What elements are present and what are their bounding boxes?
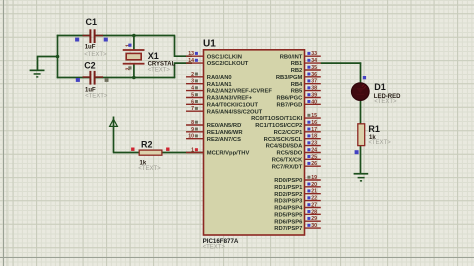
pin 30 RD7/PSP7 [274,223,321,232]
svg-text:35: 35 [311,65,317,71]
wire power arrow down to R2 row [113,117,115,153]
svg-text:RB7/PGD: RB7/PGD [277,102,303,108]
pin 29 RD6/PSP6 [274,216,321,225]
svg-text:RC0/T1OSO/T1CKI: RC0/T1OSO/T1CKI [251,116,303,122]
svg-text:25: 25 [311,154,317,160]
svg-text:18: 18 [311,134,317,140]
svg-text:17: 17 [311,127,317,133]
pin 5 RA3/AN3/VREF+ [186,93,253,102]
svg-text:RD4/PSP4: RD4/PSP4 [274,206,303,212]
X1 pin 2 marker [128,66,131,69]
svg-text:26: 26 [311,161,317,167]
svg-text:RD6/PSP6: RD6/PSP6 [274,219,303,225]
svg-text:7: 7 [191,106,194,112]
C1 pin marker left [75,38,79,42]
svg-text:RD2/PSP2: RD2/PSP2 [274,192,302,198]
svg-text:RA4/T0CKI/C1OUT: RA4/T0CKI/C1OUT [207,102,259,108]
svg-text:RB5: RB5 [291,89,303,95]
op-amp n/a : microcontroller U1 body [204,50,305,235]
pin 17 RC2/CCP1 [274,127,321,136]
svg-text:RC2/CCP1: RC2/CCP1 [274,130,303,136]
pin 3 RA1/AN1 [186,79,232,88]
X1 pin 1 marker [128,44,131,47]
pin 10 RE2/AN7/CS [186,134,241,143]
svg-text:<TEXT>: <TEXT> [148,67,171,73]
resistor R1 [358,124,365,146]
pin 39 RB6/PGC [277,93,321,102]
pin 27 RD4/PSP4 [274,203,321,212]
pin 15 RC0/T1OSO/T1CKI [251,113,321,122]
wire R2 row left segment [113,152,140,154]
svg-text:RD1/PSP1: RD1/PSP1 [274,185,303,191]
wire R2 to MCLR pin 1 [162,152,204,154]
svg-text:RA2/AN2/VREF-/CVREF: RA2/AN2/VREF-/CVREF [207,89,273,95]
svg-text:R1: R1 [368,124,380,134]
wire RB1 pin 34 to LED column [321,62,362,64]
pin 37 RB4 [291,79,321,88]
svg-text:4: 4 [191,86,194,92]
svg-text:29: 29 [311,216,317,222]
svg-text:27: 27 [311,203,317,209]
svg-text:19: 19 [311,175,317,181]
pin 2 RA0/AN0 [186,72,232,81]
pin 13 OSC1/CLKIN [186,51,242,60]
svg-text:X1: X1 [148,51,159,61]
svg-text:RA1/AN1: RA1/AN1 [207,82,233,88]
pin 1 MCLR/Vpp/THV [186,148,249,157]
svg-text:1: 1 [191,148,194,154]
R2 pin marker right [166,148,169,151]
pin 36 RB3/PGM [276,72,321,81]
wire C1 row right of C1 [96,35,176,37]
crystal X1 [123,49,145,65]
svg-text:<TEXT>: <TEXT> [368,140,391,146]
resistor R2 [139,150,162,155]
svg-text:R2: R2 [141,139,153,149]
pin 20 RD1/PSP1 [274,182,321,191]
sheet border bottom [0,257,474,259]
svg-text:RD7/PSP7: RD7/PSP7 [274,226,302,232]
wire R1 to ground [360,146,362,174]
pin 28 RD5/PSP5 [274,209,321,218]
pin 33 RB0/INT [280,51,321,60]
wire crystal bottom pin to C2 row [133,64,135,77]
C1 pin marker right [104,38,108,42]
pin 21 RD2/PSP2 [274,189,321,198]
svg-text:RA5/AN4/SS/C2OUT: RA5/AN4/SS/C2OUT [207,109,263,115]
svg-text:<TEXT>: <TEXT> [84,52,107,58]
svg-text:16: 16 [311,120,317,126]
svg-text:28: 28 [311,209,317,215]
pin 23 RC4/SDI/SDA [266,141,321,150]
svg-text:RD3/PSP3: RD3/PSP3 [274,199,303,205]
capacitor C1 [83,29,104,43]
svg-text:OSC1/CLKIN: OSC1/CLKIN [207,54,242,60]
pin 22 RD3/PSP3 [274,196,321,205]
svg-text:RC5/SDO: RC5/SDO [277,151,303,157]
wire crystal top pin to C1 row [133,36,135,51]
svg-text:RE0/AN5/RD: RE0/AN5/RD [207,123,241,129]
svg-text:RA3/AN3/VREF+: RA3/AN3/VREF+ [207,96,253,102]
svg-text:1uF: 1uF [85,44,96,50]
svg-text:39: 39 [311,93,317,99]
svg-text:10: 10 [188,134,194,140]
svg-text:RC1/T1OSI/CCP2: RC1/T1OSI/CCP2 [255,123,302,129]
D1 anode pin marker [363,76,366,79]
wire LED column down to LED anode [360,62,362,83]
svg-text:21: 21 [311,189,317,195]
LED D1 [352,83,370,101]
svg-text:RE2/AN7/CS: RE2/AN7/CS [207,137,241,143]
pin 9 RE1/AN6/WR [186,127,243,136]
pin 26 RC7/RX/DT [272,161,321,170]
sheet border left [3,0,5,266]
svg-text:OSC2/CLKOUT: OSC2/CLKOUT [207,61,249,67]
ground (left, near C1/C2) [30,70,45,78]
svg-text:D1: D1 [374,82,386,92]
pin 19 RD0/PSP0 [274,175,321,184]
pin 24 RC5/SDO [277,148,321,157]
C2 pin marker right [105,78,109,82]
junction at left vertical / ground tap [56,55,60,59]
pin 16 RC1/T1OSI/CCP2 [255,120,321,129]
svg-text:15: 15 [311,113,317,119]
R1 pin marker bottom [355,150,359,154]
pin 38 RB5 [291,86,321,95]
svg-text:RD5/PSP5: RD5/PSP5 [274,212,303,218]
svg-text:RB0/INT: RB0/INT [280,54,303,60]
pin 34 RB1 [291,58,321,67]
pin 14 OSC2/CLKOUT [186,58,249,67]
svg-text:30: 30 [311,223,317,229]
svg-text:U1: U1 [203,39,216,50]
wire C1 row (C1 to bend column) [57,35,90,37]
svg-text:RA0/AN0: RA0/AN0 [207,75,232,81]
R2 pin marker left [131,148,134,151]
svg-text:38: 38 [311,86,317,92]
svg-text:RC3/SCK/SCL: RC3/SCK/SCL [264,137,303,143]
C2 pin marker left [76,78,80,82]
svg-text:23: 23 [311,141,317,147]
svg-text:RD0/PSP0: RD0/PSP0 [274,178,302,184]
wire ground tap [38,57,58,71]
wire C1 row down to OSC1 pin 13 [175,36,193,57]
pin 7 RA5/AN4/SS/C2OUT [186,106,263,115]
svg-text:6: 6 [191,99,194,105]
svg-text:C2: C2 [84,60,96,70]
junction crystal bottom / C2 row [132,76,136,80]
junction crystal top / C1 row [132,34,136,38]
svg-text:RC6/TX/CK: RC6/TX/CK [272,157,303,163]
svg-text:13: 13 [188,51,194,57]
svg-text:9: 9 [191,127,194,133]
svg-text:<TEXT>: <TEXT> [203,244,226,250]
svg-text:40: 40 [311,99,317,105]
svg-text:2: 2 [191,72,194,78]
svg-text:RB6/PGC: RB6/PGC [277,96,304,102]
wire left vertical joining C1/C2 rows [57,35,59,78]
svg-text:36: 36 [311,72,317,78]
svg-text:24: 24 [311,148,317,154]
svg-text:8: 8 [191,120,194,126]
svg-text:RB2: RB2 [291,68,303,74]
svg-text:MCLR/Vpp/THV: MCLR/Vpp/THV [207,151,250,157]
wire C2 row up to OSC2 pin 14 [175,63,193,78]
pin 40 RB7/PGD [277,99,321,108]
svg-text:22: 22 [311,196,317,202]
wire C2 row (C2 to bend column) [57,77,90,79]
pin 6 RA4/T0CKI/C1OUT [186,99,258,108]
wire C2 row right of C2 [96,77,176,79]
svg-text:5: 5 [191,93,194,99]
svg-text:14: 14 [188,58,194,64]
wire LED cathode to R1 [360,100,362,124]
svg-text:33: 33 [311,51,317,57]
svg-text:RB3/PGM: RB3/PGM [276,75,303,81]
pin 8 RE0/AN5/RD [186,120,241,129]
svg-text:3: 3 [191,79,194,85]
svg-text:RB4: RB4 [291,82,303,88]
svg-text:37: 37 [311,79,317,85]
pin 4 RA2/AN2/VREF-/CVREF [186,86,272,95]
ground (right, below R1) [354,173,369,182]
svg-text:RB1: RB1 [291,61,303,67]
power terminal (up arrow) [110,119,118,126]
svg-text:RC7/RX/DT: RC7/RX/DT [272,164,303,170]
svg-text:<TEXT>: <TEXT> [85,93,108,99]
svg-text:34: 34 [311,58,317,64]
svg-text:RC4/SDI/SDA: RC4/SDI/SDA [266,144,304,150]
svg-text:RE1/AN6/WR: RE1/AN6/WR [207,130,244,136]
pin 18 RC3/SCK/SCL [264,134,321,143]
pin 35 RB2 [291,65,321,74]
capacitor C2 [83,71,104,85]
svg-text:C1: C1 [86,17,98,27]
svg-text:<TEXT>: <TEXT> [374,99,397,105]
svg-text:<TEXT>: <TEXT> [138,166,161,172]
svg-text:20: 20 [311,182,317,188]
pin 25 RC6/TX/CK [272,154,321,163]
